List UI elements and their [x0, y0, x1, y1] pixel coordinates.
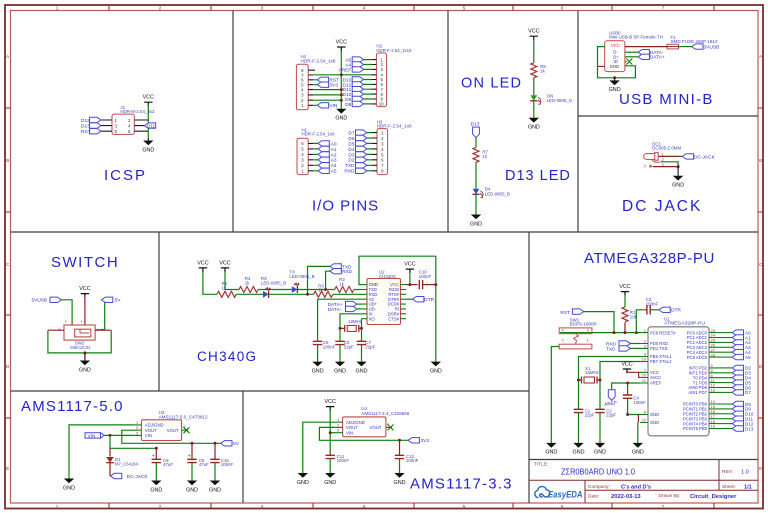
ground GND ADJ — [63, 479, 75, 492]
svg-text:AREF: AREF — [339, 67, 352, 73]
diode D1 — [109, 448, 111, 456]
flag D13 — [90, 123, 101, 128]
flags D8-D13 — [732, 401, 743, 406]
capacitor C8 — [155, 448, 157, 459]
svg-text:PB7 XTAL2: PB7 XTAL2 — [650, 359, 672, 364]
wire 5VUSB to switch — [61, 300, 72, 325]
header H4 label — [301, 54, 337, 63]
capacitor C10 out — [214, 443, 216, 459]
wire H2 pin stubs — [371, 60, 376, 104]
flag D11 — [144, 123, 155, 128]
capacitor C9 — [191, 443, 193, 459]
svg-text:ZΣR0B0ARD UNO 1.0: ZΣR0B0ARD UNO 1.0 — [561, 466, 635, 476]
svg-text:AREF: AREF — [650, 381, 662, 386]
junction DC GND — [677, 165, 680, 168]
svg-text:1/1: 1/1 — [744, 484, 752, 490]
power VCC AMS3.3 — [325, 399, 336, 411]
svg-text:DATA+: DATA+ — [650, 55, 665, 61]
svg-text:3V3: 3V3 — [329, 83, 338, 89]
svg-text:DATA-: DATA- — [328, 307, 342, 313]
ground GND C2 — [594, 443, 606, 456]
wire R6 to LED ON — [533, 78, 535, 96]
svg-text:ADJ/GND: ADJ/GND — [346, 420, 365, 425]
svg-text:7: 7 — [662, 5, 665, 10]
svg-text:AVCC: AVCC — [650, 375, 661, 380]
svg-text:+: + — [188, 453, 191, 459]
flag DC-JACK — [111, 473, 122, 478]
resistor R1 — [622, 307, 628, 322]
svg-text:VIN: VIN — [329, 103, 338, 109]
svg-text:1k: 1k — [222, 285, 227, 290]
svg-text:7: 7 — [662, 504, 665, 509]
IC U2 CH340G — [367, 279, 401, 325]
wire RX to R3 — [269, 293, 314, 295]
svg-text:1k: 1k — [318, 288, 323, 293]
svg-text:5VUSB: 5VUSB — [32, 298, 48, 304]
wire H4 pin stubs — [308, 70, 315, 105]
svg-text:A1: A1 — [331, 147, 337, 153]
svg-text:A2: A2 — [331, 152, 337, 158]
pin numbers DC1 — [662, 151, 665, 167]
flag 3V3 — [317, 82, 328, 87]
switch SW2 label — [70, 341, 90, 350]
wire USB GND loop — [598, 47, 636, 78]
capacitor C7 — [361, 328, 363, 341]
flags D7-D2 TXD RXD — [356, 130, 367, 135]
wire H2 flags to pins — [364, 60, 372, 104]
svg-text:DTR: DTR — [671, 308, 681, 314]
ground GND C8 — [150, 481, 162, 494]
flag DATA- — [638, 50, 649, 55]
wire pin2 — [661, 162, 678, 167]
connector USB0 — [605, 41, 625, 72]
svg-text:VIN: VIN — [145, 433, 152, 438]
flag DATA+ — [638, 54, 649, 59]
svg-text:12MHz: 12MHz — [348, 319, 362, 324]
U1 left pin stubs — [640, 333, 648, 423]
crystal X1 label — [585, 366, 599, 375]
wire VCC1 to lower row — [203, 272, 217, 294]
header H1 — [297, 138, 308, 174]
power VCC switch — [79, 286, 90, 298]
wire VCC pin row — [406, 284, 418, 286]
svg-text:5V: 5V — [115, 298, 122, 304]
U4 pin stubs — [336, 422, 392, 433]
IC U4 AMS1117-3.3 — [343, 417, 386, 437]
wire shield stub — [598, 65, 605, 67]
flag AREF — [608, 390, 615, 401]
svg-text:B: B — [759, 158, 762, 163]
power VCC IO — [336, 39, 347, 51]
resistor R6 — [531, 63, 537, 78]
svg-text:Circuit_Designer: Circuit_Designer — [690, 494, 737, 500]
svg-text:REV:: REV: — [722, 469, 733, 475]
svg-text:1k: 1k — [540, 68, 545, 73]
svg-text:I/O PINS: I/O PINS — [312, 198, 379, 215]
no-connect U3 VOUT — [184, 427, 190, 433]
ground GND C5 — [312, 362, 324, 375]
ground GND USB — [609, 80, 621, 93]
ground GND C12 — [394, 473, 406, 486]
svg-text:HDR-F-2.54_1x6: HDR-F-2.54_1x6 — [302, 132, 336, 137]
capacitor C5 — [313, 341, 322, 344]
svg-text:USB MINI-B: USB MINI-B — [619, 91, 714, 108]
wire switch ground loop — [48, 330, 111, 353]
wire SW1 to GND — [551, 347, 559, 443]
svg-text:1k: 1k — [482, 154, 487, 159]
svg-text:4: 4 — [363, 504, 366, 509]
svg-text:22pF: 22pF — [606, 413, 616, 418]
svg-text:B: B — [6, 158, 9, 163]
flags A0-A5 — [318, 141, 329, 146]
wire V3 to C5 — [318, 299, 362, 341]
svg-text:6: 6 — [561, 5, 564, 10]
svg-text:VOUT: VOUT — [346, 425, 358, 430]
wire VOUT to 3V3 rail — [319, 427, 408, 440]
flag DC-JACK — [682, 154, 693, 159]
svg-text:2: 2 — [159, 5, 162, 10]
svg-text:4: 4 — [363, 5, 366, 10]
wire LED to GND — [475, 194, 477, 214]
header H2 — [376, 53, 386, 107]
svg-text:C's and D's: C's and D's — [621, 484, 651, 490]
svg-text:A5: A5 — [745, 355, 751, 360]
wire 5V to switch — [95, 303, 105, 331]
svg-text:RXD: RXD — [344, 169, 355, 175]
wire VOUT to output rail — [122, 430, 221, 443]
svg-text:100nF: 100nF — [419, 274, 432, 279]
flag TXD — [330, 264, 341, 269]
svg-text:3V3: 3V3 — [421, 438, 430, 444]
svg-text:1.0: 1.0 — [741, 470, 749, 476]
power VCC AVCC — [621, 361, 632, 373]
ground GND C9 — [186, 481, 198, 494]
svg-text:5: 5 — [463, 5, 466, 10]
svg-text:VIN: VIN — [88, 433, 97, 439]
wires U1 right pins to flags — [717, 333, 732, 429]
connector USB0 label — [609, 30, 663, 39]
IC U1 ATMEGA328P-PU — [648, 327, 709, 436]
flags D2-D7 — [732, 365, 743, 370]
power VCC ICSP — [143, 95, 154, 107]
flag RXD — [330, 269, 341, 274]
svg-text:D7: D7 — [745, 390, 751, 395]
IC U2 label — [379, 270, 397, 279]
svg-text:5V: 5V — [233, 441, 240, 447]
svg-text:+: + — [58, 327, 61, 332]
svg-text:2: 2 — [159, 504, 162, 509]
wire D- to DATA- — [625, 51, 638, 53]
svg-text:DC005-2.0MM: DC005-2.0MM — [652, 146, 681, 151]
svg-text:6: 6 — [561, 504, 564, 509]
wire TX to R2 — [297, 289, 334, 291]
wire H4 pins to bus — [313, 80, 341, 106]
svg-text:100nF: 100nF — [633, 400, 646, 405]
flag VIN — [85, 433, 101, 438]
no-connect ID pin — [625, 61, 627, 63]
svg-text:A3: A3 — [331, 158, 337, 164]
capacitor C3 — [646, 297, 659, 306]
svg-text:E: E — [759, 466, 762, 471]
wire J1 right pins — [134, 120, 148, 131]
wire DTR# to flag — [406, 298, 413, 300]
ground GND D13-LED — [470, 215, 482, 228]
IC U4 label — [361, 406, 410, 416]
svg-text:22pF: 22pF — [365, 345, 375, 350]
power VCC1 — [197, 260, 208, 272]
wire U2 left stubs — [362, 285, 368, 319]
U1 right pin labels — [683, 330, 708, 431]
wire VCC to VCC/AVCC pins — [627, 372, 640, 377]
resistor R3 — [314, 291, 333, 297]
flags A5 A4 AREF D13 D12 D11 D10 D9 D8 — [339, 58, 352, 108]
svg-text:LED-0805_G: LED-0805_G — [547, 98, 573, 103]
wire XTAL1 — [579, 357, 641, 410]
header H3 — [377, 129, 388, 175]
svg-text:D8: D8 — [345, 102, 351, 108]
svg-text:VOUT: VOUT — [370, 425, 382, 430]
svg-text:D11: D11 — [147, 123, 156, 128]
svg-text:D5: D5 — [348, 141, 354, 147]
wire R5 to RX LED — [236, 293, 263, 295]
flag 5V — [221, 441, 232, 446]
svg-text:Company:: Company: — [588, 484, 610, 490]
svg-text:HDR-M-2.54_3x2: HDR-M-2.54_3x2 — [120, 109, 155, 114]
U1 left pin numbers — [642, 328, 647, 423]
flags A0-A5 — [732, 330, 743, 335]
flag DTR — [413, 297, 424, 302]
wire R1 to reset row — [624, 323, 626, 333]
svg-text:CH340G: CH340G — [197, 349, 257, 364]
wire VCC to R6 — [533, 40, 535, 62]
wire R2 to U2 TXD — [354, 289, 362, 291]
svg-text:1k: 1k — [245, 281, 250, 286]
ground GND U1 — [632, 443, 644, 456]
svg-text:SMD FUSE 260P 1812: SMD FUSE 260P 1812 — [671, 39, 719, 44]
header J1 — [112, 114, 134, 134]
switch SW2 body — [64, 325, 95, 340]
header J1 label — [120, 105, 155, 114]
wire J1 left pins — [101, 120, 112, 131]
svg-text:GND: GND — [610, 64, 619, 69]
wire switch side pins — [48, 329, 111, 331]
svg-text:D13 LED: D13 LED — [505, 168, 571, 184]
wire H3 flags to pins — [367, 133, 372, 171]
resistor R5 — [217, 291, 236, 297]
svg-text:TXD: TXD — [606, 346, 616, 352]
flag 5V — [102, 297, 113, 302]
svg-text:GND: GND — [650, 420, 659, 425]
svg-text:1: 1 — [56, 5, 59, 10]
svg-text:HDR-F-2.54_1x10: HDR-F-2.54_1x10 — [376, 48, 412, 53]
svg-text:ICSP: ICSP — [104, 167, 147, 184]
ground GND ON-LED — [528, 118, 540, 131]
resistor R4 — [239, 287, 258, 293]
IC U3 label — [159, 410, 209, 419]
svg-text:47uF: 47uF — [163, 462, 173, 467]
svg-text:PC5 ADC5: PC5 ADC5 — [687, 355, 708, 360]
header H2 label — [376, 44, 412, 53]
svg-text:D13: D13 — [81, 124, 90, 130]
wire ADJ to GND — [69, 425, 134, 479]
svg-text:VIN: VIN — [346, 430, 353, 435]
svg-text:HDR-F-2.54_1x8: HDR-F-2.54_1x8 — [377, 124, 413, 129]
connector DC1 sleeve pin2 — [652, 160, 661, 162]
U3 pin stubs — [134, 425, 188, 436]
wire XO to crystal — [361, 319, 363, 329]
wire VCC2 to upper row — [225, 272, 239, 290]
svg-text:DC-JACK: DC-JACK — [694, 154, 716, 160]
wire VCC to switch center — [84, 297, 86, 332]
wire VCC to pin2 and GND — [147, 104, 149, 138]
svg-text:D13: D13 — [471, 121, 480, 127]
svg-text:+: + — [65, 319, 68, 324]
U1 right pin numbers — [711, 328, 716, 429]
svg-text:1k: 1k — [339, 281, 344, 286]
wire D13 to R7 — [475, 138, 477, 148]
fuse F1 — [671, 35, 719, 44]
svg-text:DC-JACK: DC-JACK — [127, 474, 149, 480]
svg-text:LED-0805_B: LED-0805_B — [261, 281, 286, 286]
ground GND C7 — [356, 362, 368, 375]
svg-text:AMS1117-3.3: AMS1117-3.3 — [410, 476, 513, 493]
crystal X1 — [579, 379, 601, 381]
wire C3 branch — [636, 310, 647, 333]
svg-text:1: 1 — [56, 504, 59, 509]
flag 3V3 — [408, 438, 419, 443]
svg-text:D4: D4 — [348, 147, 354, 153]
wire LED to GND — [533, 101, 535, 118]
svg-text:D12: D12 — [81, 118, 90, 124]
svg-text:ON LED: ON LED — [461, 76, 522, 92]
svg-text:16MHz: 16MHz — [585, 370, 599, 375]
flag RST — [90, 129, 101, 134]
ground GND U4 ADJ — [297, 473, 309, 486]
LED RX (blue) — [263, 287, 270, 298]
svg-text:TITLE:: TITLE: — [534, 462, 548, 468]
svg-text:ATMEGA328P-PU: ATMEGA328P-PU — [664, 321, 705, 326]
wire H3 stubs — [372, 133, 377, 171]
svg-text:D6: D6 — [348, 136, 354, 142]
LED D13 (blue) — [472, 189, 483, 198]
svg-text:5: 5 — [463, 504, 466, 509]
wire TXD flag down — [308, 266, 331, 294]
header H4 — [296, 64, 308, 110]
U1 left pin labels — [650, 330, 676, 425]
svg-text:D3: D3 — [348, 152, 354, 158]
U1 right pin stubs — [709, 333, 717, 429]
flag RST — [317, 77, 328, 82]
svg-text:BSPS-1808P: BSPS-1808P — [570, 322, 597, 327]
svg-text:10: 10 — [379, 102, 384, 107]
svg-text:SWITCH: SWITCH — [51, 254, 119, 271]
svg-text:ADJ/GND: ADJ/GND — [145, 423, 164, 428]
flag VIN — [317, 103, 328, 108]
ground GND C1 — [573, 443, 585, 456]
ground GND C11 — [324, 473, 336, 486]
svg-text:RST: RST — [560, 310, 570, 316]
resistor R7 — [473, 147, 479, 162]
svg-text:DC JACK: DC JACK — [622, 198, 702, 215]
svg-text:CTS#: CTS# — [388, 316, 399, 321]
ground GND right rail — [430, 362, 442, 375]
svg-text:AMS1117-5.0_C473812: AMS1117-5.0_C473812 — [159, 414, 209, 419]
wire RST flag to reset row — [584, 312, 614, 333]
svg-text:VOUT: VOUT — [145, 428, 157, 433]
switch pin marks — [58, 319, 100, 332]
connector DC1 barrel — [644, 154, 657, 160]
wire DC pin1 to flag — [659, 155, 681, 157]
connector DC1 label — [652, 141, 681, 150]
svg-text:AMS1117-3.3_C426566: AMS1117-3.3_C426566 — [361, 411, 410, 416]
power VCC2 — [219, 260, 230, 272]
header H3 label — [377, 119, 413, 128]
resistor R2 — [335, 287, 354, 293]
LED ON (green) — [530, 95, 541, 104]
svg-text:A4: A4 — [331, 163, 337, 169]
wire pin3 — [653, 166, 678, 168]
power VCC R1 — [619, 284, 630, 296]
flag D12 — [90, 117, 101, 122]
svg-text:M7_C64184: M7_C64184 — [115, 461, 139, 466]
wire fuse to 5VUSB — [679, 46, 692, 48]
wire AREF row — [612, 383, 640, 390]
ground GND SW1 — [545, 443, 557, 456]
svg-text:22pF: 22pF — [585, 413, 595, 418]
svg-text:A5: A5 — [331, 169, 337, 175]
svg-text:+: + — [81, 319, 84, 324]
capacitor C10 — [419, 270, 432, 279]
svg-text:28: 28 — [711, 352, 716, 357]
ground GND ICSP — [147, 138, 149, 141]
svg-text:TXD: TXD — [345, 163, 355, 169]
flag DTR — [659, 307, 670, 312]
svg-text:100nF: 100nF — [221, 462, 234, 467]
ground GND C10 — [209, 481, 221, 494]
svg-text:AMS1117-5.0: AMS1117-5.0 — [21, 398, 124, 415]
wire H1 to flags — [313, 143, 318, 170]
ground GND C6 — [334, 362, 346, 375]
wire H1 stubs — [308, 143, 313, 170]
capacitor C12 — [399, 440, 401, 455]
svg-text:PD1 TXD: PD1 TXD — [650, 346, 668, 351]
wire reset row — [560, 332, 640, 334]
svg-text:100nF: 100nF — [337, 458, 350, 463]
wire U2 GND loop to right rail — [359, 256, 436, 361]
wire D+ to DATA+ — [625, 56, 638, 58]
wire D1 to DC-JACK flag — [109, 463, 111, 476]
wire R4 to TX LED — [258, 289, 292, 291]
capacitor C11 — [329, 451, 331, 456]
junction GND stem — [613, 76, 616, 79]
svg-text:5VUSB: 5VUSB — [704, 45, 720, 51]
svg-text:DTR: DTR — [424, 297, 434, 303]
wire VCC vertical bus — [340, 51, 342, 109]
junction dots IO bus — [340, 73, 343, 76]
svg-text:D2: D2 — [348, 158, 354, 164]
wire R7 to LED D13 — [475, 162, 477, 189]
wire VCC to VIN and C11 — [329, 410, 331, 451]
svg-text:3: 3 — [261, 5, 264, 10]
switch SW1 label — [570, 317, 597, 326]
svg-text:VCC: VCC — [611, 43, 620, 48]
capacitor C2 — [595, 409, 604, 412]
svg-text:100nF: 100nF — [646, 301, 659, 306]
wire VIN to U3 — [104, 434, 134, 436]
wire U2 right stubs — [401, 285, 407, 319]
ground GND IO — [335, 109, 347, 122]
svg-text:D13: D13 — [745, 426, 754, 431]
